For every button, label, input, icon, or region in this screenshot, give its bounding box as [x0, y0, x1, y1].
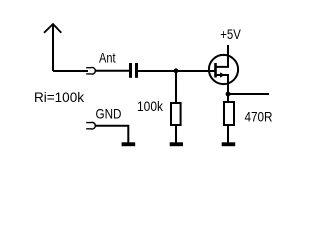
wire antenna to Ant connector	[53, 70, 88, 72]
svg-text:+5V: +5V	[220, 27, 241, 42]
transistor drain lead	[216, 45, 229, 67]
wire resistor 100k to ground	[175, 125, 177, 143]
wire capacitor to gate	[138, 70, 215, 72]
svg-text:Ant: Ant	[99, 50, 116, 65]
wire junction down to resistor 100k	[175, 71, 177, 103]
node GND connector	[86, 122, 95, 129]
antenna symbol	[44, 24, 61, 71]
wire GND connector to ground	[95, 126, 129, 143]
transistor channel bar	[214, 63, 217, 78]
transistor source arrow	[220, 72, 225, 77]
svg-text:100k: 100k	[137, 99, 163, 114]
svg-text:GND: GND	[96, 106, 122, 121]
svg-text:470R: 470R	[245, 109, 273, 124]
node Ant connector	[86, 68, 95, 75]
junction node gate/100k	[174, 68, 179, 73]
ground (100k)	[170, 142, 183, 146]
resistor 470R	[224, 102, 234, 125]
junction node source/470R	[226, 92, 231, 97]
transistor FET body circle	[209, 55, 238, 84]
ground (GND terminal)	[122, 142, 136, 146]
wire Ant connector to capacitor	[95, 70, 130, 72]
wire source node to resistor 470R	[227, 94, 229, 102]
ground (470R)	[222, 142, 236, 146]
transistor source lead	[216, 75, 229, 94]
capacitor (coupling)	[131, 63, 137, 78]
svg-text:Ri=100k: Ri=100k	[34, 90, 84, 105]
resistor 100k	[171, 103, 181, 125]
wire output from source node	[228, 93, 269, 95]
wire resistor 470R to ground	[227, 125, 229, 143]
